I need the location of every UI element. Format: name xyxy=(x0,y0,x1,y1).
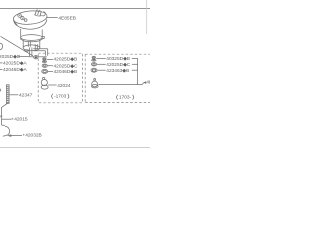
svg-text:42025D◆C: 42025D◆C xyxy=(54,63,78,69)
fuel tube bend from strainer xyxy=(1,103,7,125)
ring 423463*B xyxy=(91,68,97,72)
suction pipe to grommet xyxy=(30,47,32,56)
svg-text:42024: 42024 xyxy=(57,83,71,89)
svg-text:42025D◆B: 42025D◆B xyxy=(54,57,78,63)
group leader lines to bracket xyxy=(98,58,144,84)
svg-text:4E85EB: 4E85EB xyxy=(58,15,76,21)
cap top ports xyxy=(18,14,27,22)
gasket 42025D*C xyxy=(42,64,47,67)
svg-text:+42015: +42015 xyxy=(11,117,27,123)
svg-text:❬-1703❭: ❬-1703❭ xyxy=(50,93,70,99)
cap connector prongs xyxy=(34,10,45,16)
pump 1703- xyxy=(92,78,99,87)
bolt 40325D*B xyxy=(92,56,96,61)
svg-text:423463◆B: 423463◆B xyxy=(106,68,129,74)
reservoir cup xyxy=(23,40,40,50)
right edge panel divider xyxy=(146,0,148,34)
float arm xyxy=(1,36,34,56)
bottom border line xyxy=(0,147,150,149)
pump 42024 xyxy=(41,77,48,89)
pump body cylinder xyxy=(21,29,45,42)
svg-text:+42032B: +42032B xyxy=(22,132,41,138)
tube union nub xyxy=(0,115,2,117)
ring 42046D*B xyxy=(42,69,48,73)
svg-text:40325D◆B: 40325D◆B xyxy=(106,56,130,62)
svg-text:2025D◆D: 2025D◆D xyxy=(0,54,21,60)
edge tick xyxy=(0,89,2,92)
label 41 (cut at right edge) xyxy=(144,81,147,84)
gasket 42025D*C right xyxy=(91,63,96,66)
fuel pump assembly cap flange xyxy=(13,9,48,29)
label 4E85EB xyxy=(47,17,58,19)
svg-text:42025D◆A: 42025D◆A xyxy=(3,61,27,67)
svg-text:42046D◆A: 42046D◆A xyxy=(3,67,27,73)
right dashed box (1703- kit) xyxy=(85,54,150,102)
grommet 42025D*D xyxy=(34,56,38,59)
label 42032B with arrow xyxy=(7,134,11,137)
label 42015 xyxy=(2,118,12,120)
svg-text:42046D◆B: 42046D◆B xyxy=(54,69,78,75)
svg-text:4B: 4B xyxy=(146,80,150,86)
middle dashed box (-1703 kit) xyxy=(38,53,82,103)
svg-text:42347: 42347 xyxy=(19,92,33,98)
clamp 42032B xyxy=(3,126,10,136)
top border line xyxy=(0,8,150,10)
svg-text:❬1703-❭: ❬1703-❭ xyxy=(115,95,135,101)
svg-text:42025D◆C: 42025D◆C xyxy=(106,62,130,68)
pump bottom fittings xyxy=(25,44,38,51)
label 42046D*A xyxy=(0,69,3,71)
label 42025D*A xyxy=(0,62,3,64)
label 42347 xyxy=(9,94,18,96)
strainer 42347 xyxy=(7,85,10,104)
float (cut at left edge) xyxy=(0,43,3,50)
outlet elbow pipe xyxy=(33,49,47,56)
bolt 42025D*B xyxy=(42,58,46,63)
